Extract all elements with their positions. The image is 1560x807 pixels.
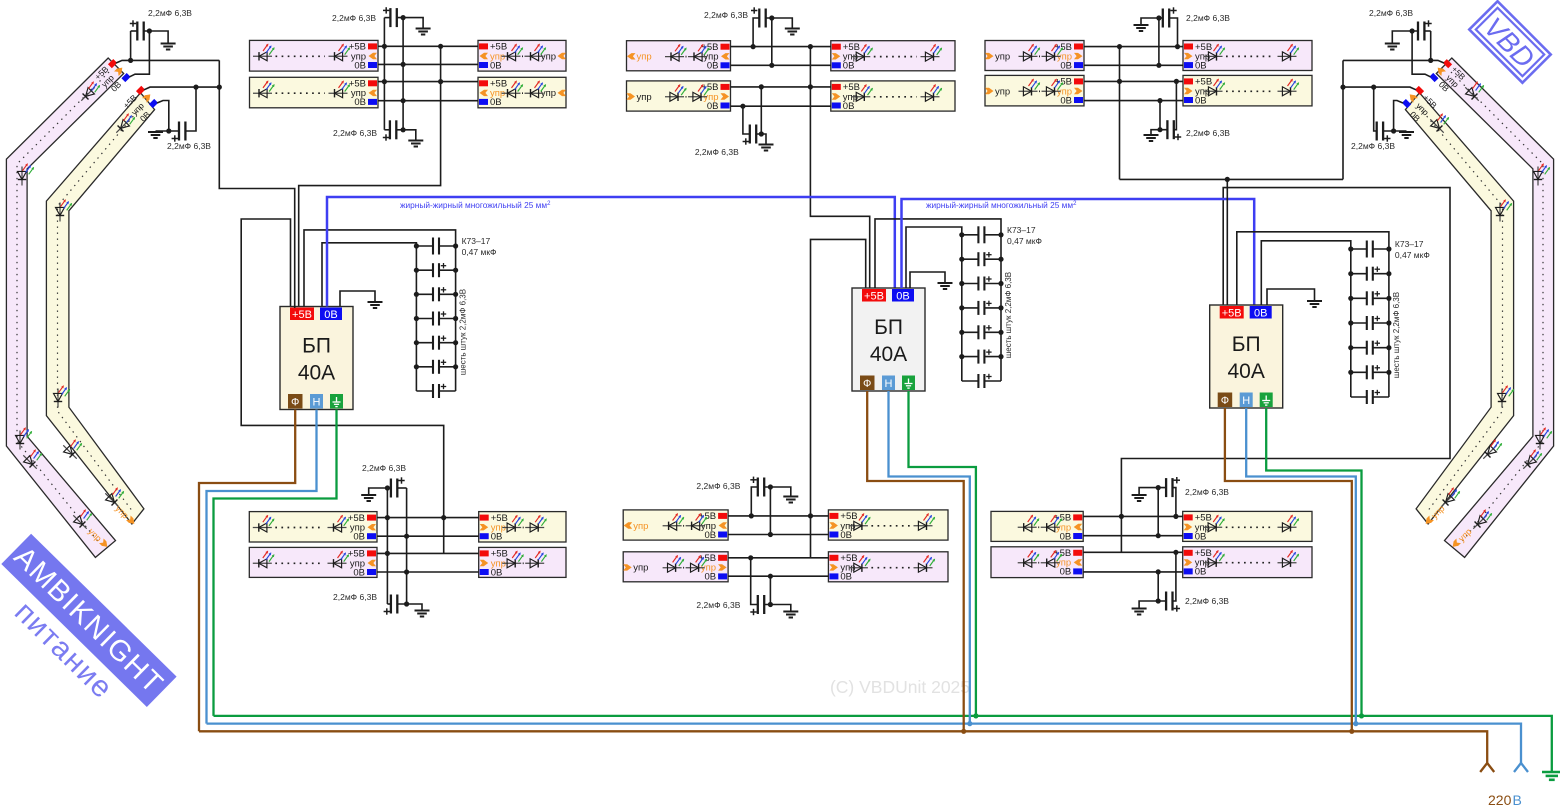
wire +5В row2 top-right [1084,80,1183,82]
svg-text:Н: Н [1242,395,1250,407]
wire БП1 0В to bank1 left bus [322,243,416,307]
capacitor C5 2,2мФ 6,3В (top-right upper) [1134,7,1231,68]
svg-text:2,2мФ 6,3В: 2,2мФ 6,3В [1351,141,1395,151]
capacitor C12 2,2мФ 6,3В (bottom-right lower) [1132,550,1230,615]
svg-text:0В: 0В [353,567,365,578]
bus Ф brown horizontal [199,731,1487,763]
svg-text:0В: 0В [707,101,719,112]
svg-text:К73–17: К73–17 [462,236,491,246]
terminal Ф 220В (brown fork) [1480,763,1494,772]
connector pins yellow right strip (+5В упр 0В) [1415,86,1424,95]
svg-text:БП: БП [1232,333,1261,356]
wire БП3 0В to bank3 left bus [1261,241,1351,305]
wire +5В feed corner to БП3 [1342,60,1344,179]
LED strip module E4 (bottom-left short, row2) [479,547,566,578]
wire +5В row1 bottom-right [1083,515,1183,517]
wire 0В vertical (caps) bottom-left [406,488,408,604]
LED strip module E3 (bottom-left short, row1) [479,512,566,543]
svg-text:0В: 0В [1060,60,1072,71]
LED strip module G2 (bottom-right, row2) [1183,547,1312,578]
wire +5В row1 bottom-left [377,517,479,519]
power supply U1 БП 40А [280,307,353,410]
wire 0В vertical (caps) top-left [402,18,404,130]
LEDs yellow left strip [113,114,135,136]
wire +5В yellow right strip [1343,87,1416,90]
capacitor C14 2,2мФ 6,3В (left corner lower) [148,85,211,152]
wire 0В row2 top-left [378,100,478,102]
svg-text:2,2мФ 6,3В: 2,2мФ 6,3В [1369,8,1413,18]
wire ground БП2 to bus [909,391,976,716]
svg-text:0В: 0В [840,572,852,583]
LED strip module B3 (top-mid, row1) [831,41,955,72]
LED strip module A3 (top-left short, row1) [478,40,566,71]
svg-text:0В: 0В [1195,95,1207,106]
dotted line yellow right strip [1419,107,1503,512]
svg-text:упр: упр [995,51,1010,62]
svg-text:0,47 мкФ: 0,47 мкФ [1007,236,1042,246]
power supply U2 БП 40А [852,288,925,391]
svg-text:К73–17: К73–17 [1395,239,1424,249]
capacitor C8 2,2мФ 6,3В (bottom-left lower) [333,592,429,617]
LED strip module G3 (bottom-right short, row1) [991,511,1083,542]
svg-text:220: 220 [1488,792,1512,807]
ground symbol (green, bottom right) [1542,772,1560,780]
LED strip module B2 (top-mid short, row2) [627,81,731,112]
svg-text:(C) VBDUnit 2025: (C) VBDUnit 2025 [830,677,970,697]
LED strip module D4 (top-right, row2) [1183,75,1312,106]
wire +5В feed corner to БП1 [219,60,294,308]
svg-text:Ф: Ф [1221,395,1229,407]
wire 0В pink right strip to capacitor [1412,31,1430,77]
wire +5В loop БП1 to bottom-left cluster [241,219,444,553]
capacitor C11 2,2мФ 6,3В (bottom-right upper) [1132,477,1230,538]
LED strip module F4 (bottom-mid short, row2) [623,552,728,583]
svg-text:0В: 0В [1060,567,1072,578]
banner AMBIKNIGHT (rotated, bottom left) [1,534,176,707]
connector pins pink right strip (+5В упр 0В) [1443,59,1452,68]
svg-text:упр: упр [995,86,1010,97]
svg-text:+5В: +5В [864,290,884,302]
wire +5В row1 top-mid [731,46,831,48]
svg-text:2,2мФ 6,3В: 2,2мФ 6,3В [362,463,406,473]
terminal Н 220В (blue fork) [1514,763,1528,772]
svg-text:шесть штук 2,2мФ 6,3В: шесть штук 2,2мФ 6,3В [1392,292,1401,378]
svg-text:БП: БП [874,316,903,339]
svg-text:2,2мФ 6,3В: 2,2мФ 6,3В [148,8,192,18]
svg-text:0В: 0В [1254,307,1267,319]
wire 0В row1 top-mid [731,64,831,66]
svg-text:0В: 0В [490,97,502,108]
wire БП2 +5В to bank2 right bus [875,219,1001,288]
LED corner strip S-L1 (pink, left outer) [6,58,123,557]
svg-text:40А: 40А [870,343,907,366]
wire 0В row1 bottom-mid [728,534,828,536]
wire +5В row1 top-left [378,45,478,47]
power supply U3 БП 40А [1210,305,1283,408]
svg-text:0В: 0В [1060,531,1072,542]
LED strip module A1 (top-left, row1) [250,40,379,71]
LED strip module D3 (top-right, row1) [1183,41,1312,72]
wire Н (нейтраль, blue) БП1 to bus [207,410,317,724]
svg-text:0,47 мкФ: 0,47 мкФ [1395,250,1430,260]
svg-text:0В: 0В [354,60,366,71]
wire +5В vertical (caps) bottom-left [386,488,388,604]
svg-text:шесть штук 2,2мФ 6,3В: шесть штук 2,2мФ 6,3В [459,289,468,375]
capacitor C15 2,2мФ 6,3В (right corner upper) [1369,8,1433,63]
svg-text:0В: 0В [1195,567,1207,578]
svg-text:0В: 0В [1060,95,1072,106]
connector pins yellow left strip (+5В упр 0В) [136,86,145,95]
wire +5В feed to БП2 from top-mid cluster [810,47,869,289]
wire 0В row2 bottom-left [377,571,479,573]
svg-text:0В: 0В [840,530,852,541]
svg-text:Ф: Ф [291,397,299,409]
LED strip module D2 (top-right short, row2) [985,75,1084,106]
wire +5В pink right strip [1343,60,1444,63]
svg-text:2,2мФ 6,3В: 2,2мФ 6,3В [1185,487,1229,497]
LEDs pink left strip [78,82,100,104]
wire +5В pink left strip [116,60,219,63]
wire +5В vertical (caps) top-left [383,18,385,130]
LED corner strip S-R1 (pink, right outer) [1436,58,1553,557]
LED strip module G4 (bottom-right short, row2) [991,547,1083,578]
svg-text:В: В [1513,792,1522,807]
LED strip module E2 (bottom-left, row2) [249,547,377,578]
capacitor bank B3: К73-17 0,47мкФ + 6x 2,2мФ 6,3В [1348,239,1430,404]
LED corner strip S-R2 (yellow, right inner) [1405,93,1513,524]
svg-text:К73–17: К73–17 [1007,225,1036,235]
svg-text:0В: 0В [704,572,716,583]
wire ground (green) БП1 to bus [214,410,337,716]
svg-text:0В: 0В [490,60,502,71]
capacitor C9 2,2мФ 6,3В (bottom-mid upper) [696,477,798,538]
svg-text:шесть штук 2,2мФ 6,3В: шесть штук 2,2мФ 6,3В [1004,272,1013,358]
wire БП1 +5В to bank1 right bus [304,230,456,307]
dotted line pink left strip [17,72,109,544]
svg-text:0В: 0В [1195,531,1207,542]
wire 0В yellow left strip to capacitor [157,101,169,132]
LED strip module F3 (bottom-mid short, row1) [623,510,728,541]
wire +5В feed into БП3 (corner + cluster) [1120,178,1344,180]
svg-text:упр: упр [637,92,652,103]
LED strip module F2 (bottom-mid, row2) [828,552,948,583]
connector pins pink left strip (+5В упр 0В) [108,59,117,68]
LED strip module A4 (top-left short, row2) [478,77,566,108]
wire Ф БП3 to bus [1225,408,1352,731]
svg-text:0В: 0В [707,61,719,72]
wire БП3 +5В to bank3 right bus [1237,232,1389,305]
svg-text:40А: 40А [1228,360,1265,383]
svg-text:упр: упр [637,52,652,63]
svg-text:40А: 40А [298,362,335,385]
wire +5В row2 bottom-right [1083,551,1183,553]
svg-text:0В: 0В [491,567,503,578]
wire 0В row1 top-right [1084,64,1183,66]
svg-text:жирный-жирный многожильный 25: жирный-жирный многожильный 25 мм2 [926,200,1077,210]
wire 0В row2 bottom-right [1083,571,1183,573]
wire +5В row2 top-left [378,81,478,83]
wire ground БП3 to bus [1266,408,1361,716]
capacitor C7 2,2мФ 6,3В (bottom-left upper) [361,463,406,501]
svg-text:2,2мФ 6,3В: 2,2мФ 6,3В [333,592,377,602]
svg-text:2,2мФ 6,3В: 2,2мФ 6,3В [1186,13,1230,23]
wire Ф БП2 to bus [867,391,964,731]
svg-text:0В: 0В [1195,60,1207,71]
svg-text:2,2мФ 6,3В: 2,2мФ 6,3В [167,141,211,151]
capacitor C6 2,2мФ 6,3В (top-right lower) [1144,79,1231,141]
LEDs pink right strip [1462,82,1484,104]
capacitor C4 2,2мФ 6,3В (top-mid lower) [695,84,774,157]
LED corner strip S-L2 (yellow, left inner) [46,93,154,524]
svg-text:0В: 0В [843,61,855,72]
capacitor C1 2,2мФ 6,3В (top-left upper) [332,7,431,34]
dotted line yellow left strip [58,107,142,512]
wire 0В row2 bottom-mid [728,575,828,577]
svg-text:Ф: Ф [863,378,871,390]
svg-text:2,2мФ 6,3В: 2,2мФ 6,3В [696,481,740,491]
wire 0В pink left strip to capacitor [130,31,150,77]
capacitor bank B1: К73-17 0,47мкФ + 6x 2,2мФ 6,3В [414,236,497,398]
wire Н БП3 to bus [1246,408,1356,724]
LED strip module G1 (bottom-right, row1) [1183,511,1312,542]
svg-text:2,2мФ 6,3В: 2,2мФ 6,3В [695,147,739,157]
logo VBD (rotated stamp, top right) [1469,1,1550,82]
svg-text:БП: БП [302,335,331,358]
ground stub БП2 0В [910,272,945,288]
ground stub БП1 0В [340,291,375,307]
wire +5В yellow left strip [144,87,219,90]
ground stub БП3 0В [1267,289,1315,305]
capacitor C13 2,2мФ 6,3В (left corner upper) [128,8,192,63]
LED strip module D1 (top-right short, row1) [985,41,1084,72]
svg-text:2,2мФ 6,3В: 2,2мФ 6,3В [696,600,740,610]
wire +5В row2 bottom-left [377,552,479,554]
LED strip module B4 (top-mid, row2) [831,81,955,112]
thick wire 0В БП2-БП3 (жирный многожильный 25мм²) [902,199,1255,305]
LED strip module B1 (top-mid short, row1) [627,41,731,72]
wire БП2 0В to bank2 left bus [906,227,962,288]
svg-text:2,2мФ 6,3В: 2,2мФ 6,3В [704,10,748,20]
capacitor C2 2,2мФ 6,3В (top-left lower) [333,120,423,146]
svg-text:+5В: +5В [1222,307,1242,319]
bus ground green horizontal [214,716,1552,771]
wire 0В row1 bottom-right [1083,535,1183,537]
svg-text:0,47 мкФ: 0,47 мкФ [462,247,497,257]
svg-text:2,2мФ 6,3В: 2,2мФ 6,3В [1185,596,1229,606]
capacitor C16 2,2мФ 6,3В (right corner lower) [1351,85,1414,152]
svg-text:0В: 0В [704,530,716,541]
wire +5В feed to БП1 from top-left cluster [299,46,441,308]
wire 0В yellow right strip to capacitor [1394,101,1403,132]
wire +5В row1 top-right [1084,46,1183,48]
svg-text:0В: 0В [843,101,855,112]
wire +5В row1 bottom-mid [728,515,828,517]
LED strip module F1 (bottom-mid, row1) [828,510,948,541]
LEDs yellow right strip [1427,114,1449,136]
LED strip module E1 (bottom-left, row1) [249,512,377,543]
svg-text:2,2мФ 6,3В: 2,2мФ 6,3В [333,128,377,138]
svg-text:+5В: +5В [292,309,312,321]
wire +5В row2 top-mid [731,86,831,88]
wire Н БП2 to bus [889,391,970,724]
svg-text:Н: Н [885,378,893,390]
svg-text:0В: 0В [491,532,503,543]
capacitor C10 2,2мФ 6,3В (bottom-mid lower) [696,555,798,617]
svg-text:упр: упр [633,563,648,574]
wire +5В feed to БП3 from top-right cluster [1119,47,1121,180]
wire +5В loop БП2 to bottom-mid cluster [811,239,866,557]
svg-text:0В: 0В [354,97,366,108]
svg-text:упр: упр [633,521,648,532]
wire +5В row2 bottom-mid [728,557,828,559]
wire Ф (фаза, brown) БП1 to bus [199,410,295,732]
wire 0В row1 bottom-left [377,535,479,537]
svg-text:жирный-жирный многожильный 25: жирный-жирный многожильный 25 мм2 [400,200,551,210]
capacitor C3 2,2мФ 6,3В (top-mid upper) [704,7,800,68]
svg-text:0В: 0В [896,290,909,302]
LED strip module A2 (top-left, row2) [250,77,379,108]
wire 0В row2 top-right [1084,100,1183,102]
svg-text:Н: Н [313,397,321,409]
wire 0В row2 top-mid [731,105,831,107]
svg-text:2,2мФ 6,3В: 2,2мФ 6,3В [332,13,376,23]
bus Н blue horizontal [207,724,1522,763]
wire +5В loop БП3 to bottom-right cluster [1121,188,1450,553]
svg-text:2,2мФ 6,3В: 2,2мФ 6,3В [1186,128,1230,138]
svg-text:0В: 0В [353,532,365,543]
thick wire 0В БП1-БП2 (жирный многожильный 25мм²) [327,197,895,307]
wire 0В row1 top-left [378,63,478,65]
dotted line pink right strip [1451,72,1543,544]
capacitor bank B2: К73-17 0,47мкФ + 6x 2,2мФ 6,3В [959,225,1042,388]
svg-text:0В: 0В [324,309,337,321]
